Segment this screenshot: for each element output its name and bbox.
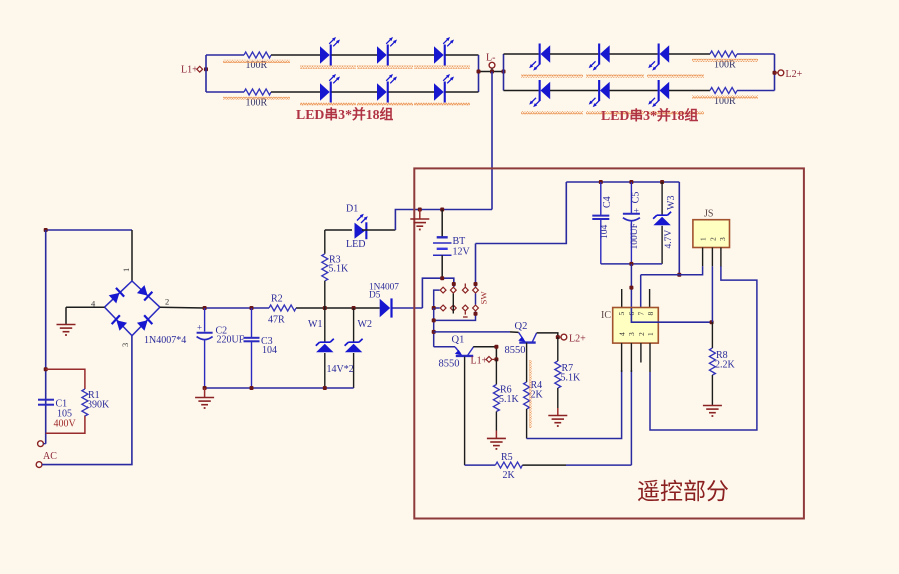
IC box xyxy=(613,308,659,344)
node L2+ dot xyxy=(773,71,777,75)
wire bottom rail y388 xyxy=(205,387,354,389)
capacitor C5 100UF xyxy=(630,182,632,213)
node dots on filter top rail xyxy=(599,180,603,184)
wire row1 a xyxy=(550,53,598,55)
node dot SW bottom wire xyxy=(432,318,436,322)
svg-text:AC: AC xyxy=(43,451,57,462)
wire row2 b xyxy=(610,90,658,92)
terminal L2+ circle xyxy=(778,70,784,76)
svg-text:遥控部分: 遥控部分 xyxy=(637,479,729,504)
LED bank-left 1 xyxy=(320,45,332,66)
resistor R1 390K xyxy=(82,389,88,416)
wire right bus of left bank xyxy=(478,55,480,92)
svg-text:R2: R2 xyxy=(271,294,283,305)
LED bank-right 6 xyxy=(658,80,670,101)
wire to D1 xyxy=(325,229,352,231)
svg-text:1: 1 xyxy=(699,237,708,241)
svg-text:D5: D5 xyxy=(369,291,381,301)
svg-text:14V*2: 14V*2 xyxy=(327,364,354,375)
node dots on junction rail xyxy=(477,70,481,74)
svg-text:IC: IC xyxy=(601,310,611,321)
LED bank-left 3 xyxy=(434,45,446,66)
svg-text:5: 5 xyxy=(617,312,626,316)
switch pole col2 xyxy=(452,294,454,314)
svg-text:12V: 12V xyxy=(453,247,471,258)
wire Q2 base lead down xyxy=(526,343,528,382)
svg-text:1: 1 xyxy=(121,268,131,272)
terminal AC lower circle xyxy=(36,462,42,468)
resistor R3 5.1K xyxy=(324,230,326,254)
svg-text:5.1K: 5.1K xyxy=(499,394,520,405)
wire SW col4 between rows and down xyxy=(475,294,477,305)
wire row1 b xyxy=(332,54,378,56)
svg-text:100UF: 100UF xyxy=(630,223,640,249)
wire row2 c xyxy=(389,91,435,93)
zener W2 14V xyxy=(353,308,355,343)
LED bank-right 1 xyxy=(539,44,551,65)
svg-text:3: 3 xyxy=(120,343,130,347)
resistor R5 2K xyxy=(465,464,496,466)
capacitor C4 104 xyxy=(600,182,602,215)
resistor R4 2K xyxy=(524,382,530,409)
svg-text:8: 8 xyxy=(646,312,655,316)
wire top-left rail xyxy=(46,229,132,231)
wire row2 d xyxy=(446,91,479,93)
svg-text:LED串3*并18组: LED串3*并18组 xyxy=(296,106,394,122)
svg-text:5.1K: 5.1K xyxy=(561,373,582,384)
svg-text:7: 7 xyxy=(637,312,646,316)
svg-text:LED串3*并18组: LED串3*并18组 xyxy=(601,107,699,123)
svg-text:W1: W1 xyxy=(308,319,322,330)
IC pin4 stub xyxy=(621,343,623,372)
ground under R8 xyxy=(703,406,722,417)
svg-text:C5: C5 xyxy=(631,192,642,204)
JS pin stubs xyxy=(702,248,704,267)
capacitor C3 104 xyxy=(251,308,253,337)
svg-text:5.1K: 5.1K xyxy=(329,264,350,275)
IC pin2 stub xyxy=(640,343,642,362)
wire right bus of right bank xyxy=(774,54,776,91)
resistor 100R (bottom right) xyxy=(710,88,737,94)
wire row1 left xyxy=(206,54,244,56)
svg-text:2: 2 xyxy=(165,297,169,307)
wire JS pin1 rail to IC pin7 xyxy=(641,266,703,275)
svg-text:W3: W3 xyxy=(666,196,677,210)
wire bridge pin4 to ground xyxy=(66,306,105,308)
svg-text:JS: JS xyxy=(704,209,713,220)
svg-text:2: 2 xyxy=(709,237,718,241)
IC pin7 wire from JS rail xyxy=(640,275,642,308)
LED bank-right 3 xyxy=(658,44,670,65)
wire battery plus loop to SW col4 xyxy=(476,182,567,244)
switch SW terminals row2 xyxy=(440,305,446,311)
svg-text:L1+: L1+ xyxy=(181,65,198,76)
IC pin8 stub xyxy=(649,289,651,308)
LED bank-right 2 xyxy=(598,44,610,65)
wire row2 left xyxy=(206,91,244,93)
ground under R7 xyxy=(557,408,559,416)
IC pin1 stub xyxy=(649,343,651,372)
wire row2 c xyxy=(669,90,710,92)
svg-text:3: 3 xyxy=(718,237,727,241)
node dot SW col4 top xyxy=(474,282,478,286)
svg-text:L2+: L2+ xyxy=(569,334,586,345)
resistor 100R (bottom left) xyxy=(244,89,271,95)
wire left bus of right bank xyxy=(503,54,505,91)
ground under R6 xyxy=(495,431,497,439)
wire row1 c xyxy=(669,53,710,55)
wire filter right branch down xyxy=(678,182,680,275)
ground at bridge pin4 xyxy=(57,325,76,336)
terminal L1+ diamond xyxy=(197,66,203,72)
svg-text:47R: 47R xyxy=(268,315,285,326)
bridge diode bottom-right xyxy=(137,315,153,331)
wire row2 a xyxy=(550,90,598,92)
wire main rail y308 xyxy=(205,307,269,309)
node dots on rail xyxy=(203,306,207,310)
wire mid junction rail xyxy=(479,71,504,73)
svg-text:2: 2 xyxy=(637,332,646,336)
wire R4 to IC pin4 xyxy=(527,370,622,439)
wire L- stub xyxy=(491,68,493,71)
svg-text:2K: 2K xyxy=(503,470,516,481)
wire top rail of filter xyxy=(566,181,679,183)
LED bank-left 2 xyxy=(377,45,389,66)
svg-text:104: 104 xyxy=(262,345,277,356)
node dot top ground junction xyxy=(418,208,422,212)
svg-text:+: + xyxy=(632,208,642,213)
wire IC pin1 to JS pin3 loop xyxy=(650,266,757,430)
wire R5 riser to IC pin3 xyxy=(630,370,632,465)
wire left drop to transistors xyxy=(433,308,435,347)
wire L- drop to remote section xyxy=(491,72,493,210)
wire Q1 base lead down xyxy=(464,357,466,466)
wire bridge pin1 lead xyxy=(131,230,133,281)
capacitor C1 xyxy=(38,399,54,401)
svg-text:+: + xyxy=(197,323,202,333)
resistor R6 5.1K xyxy=(495,359,497,384)
bridge diode top-right xyxy=(137,285,153,301)
terminal AC upper circle xyxy=(38,441,44,447)
svg-text:8550: 8550 xyxy=(439,359,460,370)
wire row2 a xyxy=(271,91,320,93)
switch SW terminals row1 xyxy=(440,287,446,293)
bridge rectifier 1N4007*4 diamond xyxy=(105,281,160,336)
wire bottom rail of filter xyxy=(601,263,662,265)
wire maroon loop to R1 xyxy=(46,369,85,389)
svg-text:Q2: Q2 xyxy=(515,321,528,332)
svg-text:L1+: L1+ xyxy=(471,356,488,367)
resistor R8 2.2K xyxy=(711,322,713,348)
wire D1 to remote box xyxy=(362,229,395,231)
svg-text:2.2K: 2.2K xyxy=(715,360,736,371)
wire row1 b xyxy=(610,53,658,55)
svg-text:400V: 400V xyxy=(54,419,77,430)
ground at top of box xyxy=(419,210,421,220)
wire bridge pin2 out xyxy=(160,306,205,309)
wire L2+ stub xyxy=(775,72,779,74)
bridge diode bottom-left xyxy=(112,315,128,331)
wire Q2 collector to L2+ node xyxy=(537,333,558,337)
svg-text:390K: 390K xyxy=(87,400,110,411)
wire SW col1 left loop xyxy=(434,290,440,308)
remote section border box xyxy=(414,168,804,518)
node L1+ junction dot xyxy=(204,67,208,71)
orange squiggle along R4 xyxy=(529,360,532,428)
wire row1 left xyxy=(504,53,539,55)
node junction dots on bottom rail xyxy=(203,386,207,390)
IC pin6 internal wire out to JS pin2 xyxy=(631,308,711,322)
resistor R2 47R xyxy=(269,305,296,311)
node dot battery minus junction xyxy=(440,276,444,280)
wire row2 d xyxy=(737,90,775,92)
wire left bus xyxy=(205,55,207,92)
resistor 100R (top left) xyxy=(244,52,271,58)
transistor Q1 8550 xyxy=(434,346,455,348)
capacitor C2 220UF xyxy=(204,308,206,332)
LED bank-right 4 xyxy=(539,80,551,101)
zener W3 4.7V xyxy=(661,182,663,216)
svg-text:C4: C4 xyxy=(602,196,613,208)
resistor R7 5.1K xyxy=(557,337,559,361)
svg-text:3: 3 xyxy=(627,332,636,336)
svg-text:Q1: Q1 xyxy=(452,335,465,346)
JS box xyxy=(693,220,730,248)
svg-text:104: 104 xyxy=(600,225,610,240)
wire row1 c xyxy=(389,54,435,56)
svg-text:8550: 8550 xyxy=(505,345,526,356)
svg-text:L2+: L2+ xyxy=(786,69,803,80)
wire row2 b xyxy=(332,91,378,93)
wire row2 left xyxy=(504,90,539,92)
ground under C2 xyxy=(204,388,206,398)
svg-text:4: 4 xyxy=(618,332,627,336)
LED bank-left 4 xyxy=(320,82,332,103)
transistor Q2 8550 xyxy=(519,332,524,339)
wire SW to Q2 xyxy=(434,331,510,333)
svg-text:D1: D1 xyxy=(346,204,358,215)
bridge diode top-left xyxy=(108,288,124,304)
wire JS pin2 down xyxy=(711,266,713,322)
wire Q1 collector to L1+ node xyxy=(473,347,496,360)
wire SW col4 riser from BT+ rail xyxy=(475,244,477,287)
wire row1 a xyxy=(271,54,320,56)
LED D1 xyxy=(355,223,366,239)
LED bank-left 5 xyxy=(377,82,389,103)
wire row1 d xyxy=(446,54,479,56)
svg-text:BT: BT xyxy=(453,236,466,247)
node top-left corner dot xyxy=(44,228,48,232)
wire left vertical bus xyxy=(45,230,47,444)
IC pin3 stub xyxy=(630,343,632,372)
svg-text:1N4007*4: 1N4007*4 xyxy=(144,335,186,346)
zener W1 14V xyxy=(324,308,326,343)
svg-text:2K: 2K xyxy=(531,390,544,401)
svg-text:LED: LED xyxy=(346,239,365,250)
wire row1 d xyxy=(737,53,775,55)
wire C5 down to IC pin6 xyxy=(630,264,632,308)
terminal L- circle xyxy=(489,62,495,68)
LED bank-left 6 xyxy=(434,82,446,103)
node dot battery top xyxy=(440,208,444,212)
svg-text:1: 1 xyxy=(646,332,655,336)
terminal L2+ inside box xyxy=(558,336,561,338)
svg-text:W2: W2 xyxy=(358,319,372,330)
wire rail into box up to battery minus xyxy=(422,278,453,308)
wire AC bottom to bridge xyxy=(42,336,132,465)
switch col3 actuator marks xyxy=(464,284,466,287)
svg-text:SW: SW xyxy=(479,291,489,305)
diode D5 1N4007 xyxy=(380,299,391,318)
node C1 top junction dot xyxy=(44,367,48,371)
svg-text:4.7V: 4.7V xyxy=(664,230,674,249)
IC pin5 stub xyxy=(621,289,623,308)
svg-text:R5: R5 xyxy=(501,452,513,463)
node dot SW col4 bottom xyxy=(474,312,478,316)
svg-text:220UF: 220UF xyxy=(217,335,245,346)
battery BT 12V xyxy=(441,210,443,238)
node dot Q2 branch xyxy=(432,330,436,334)
resistor 100R (top right) xyxy=(710,51,737,57)
LED bank-right 5 xyxy=(598,80,610,101)
